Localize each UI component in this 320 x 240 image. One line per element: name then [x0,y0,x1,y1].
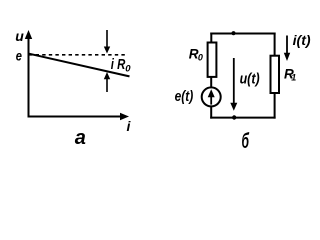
svg-text:а: а [75,127,86,149]
load line u(i) [29,54,130,77]
wire top right corner down to R1 [274,33,276,56]
svg-text:e(t): e(t) [175,89,194,105]
dimension arrow down (to dashed line) [104,30,110,54]
svg-text:u(t): u(t) [240,70,260,87]
resistor R0 [208,43,217,77]
resistor R1 [271,56,280,93]
bottom wire [210,117,275,119]
label i R0 (voltage drop) [111,56,132,74]
wire R1 to bottom [274,93,276,119]
label R1 [284,65,296,82]
svg-text:0: 0 [198,53,203,63]
wire source to bottom [210,106,212,119]
svg-text:i: i [127,118,132,134]
voltage arrow u(t) [230,58,237,111]
dashed line at level e [29,54,127,56]
svg-text:б: б [242,130,250,150]
circuit b: top wire [210,33,275,35]
dimension arrow up (to load line) [104,72,110,92]
svg-text:1: 1 [291,73,296,83]
svg-text:0: 0 [125,63,131,74]
svg-text:i R: i R [111,56,126,73]
graph a: current axis (i) [28,113,130,120]
emf source internal arrow [208,89,215,104]
emf source e(t) circle [202,87,221,106]
node dot bottom (u terminal) [232,115,236,119]
svg-text:i(t): i(t) [293,32,311,48]
svg-text:u: u [15,28,24,44]
graph a: voltage axis (u) [25,30,32,117]
circuit b: left stub wire above R0 [210,33,212,43]
label R0 [189,46,203,63]
current arrow i(t) [284,36,290,62]
node dot top (u terminal) [231,31,235,35]
wire R0 to source [210,77,212,89]
svg-text:e: e [16,47,22,63]
